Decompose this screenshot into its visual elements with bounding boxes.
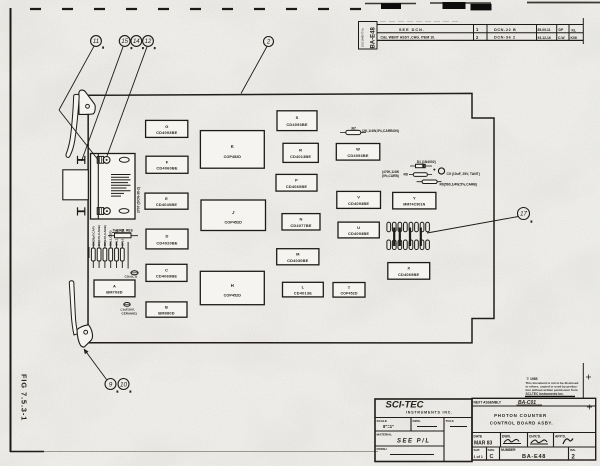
svg-text:SCALE: SCALE — [377, 419, 388, 423]
svg-text:MAR 83: MAR 83 — [474, 441, 493, 447]
svg-text:B: B — [165, 304, 168, 309]
svg-text:10: 10 — [120, 381, 128, 388]
svg-text:E: E — [165, 196, 168, 201]
svg-text:CD4093BE: CD4093BE — [348, 201, 369, 206]
thermal resistor R3 — [108, 229, 138, 238]
balloon 12 — [143, 36, 156, 50]
top ejector lever — [66, 94, 79, 157]
svg-text:X: X — [407, 266, 410, 271]
title block finish cell — [377, 447, 435, 455]
connector J1 note — [137, 187, 141, 213]
IC K — [200, 131, 264, 169]
connector J1 slot upper — [119, 157, 129, 162]
IC L — [283, 282, 324, 297]
svg-text:C&L WENT ASSY ,CHG. ITEM 10.: C&L WENT ASSY ,CHG. ITEM 10. — [381, 36, 436, 40]
svg-text:BA-E48: BA-E48 — [522, 454, 546, 460]
svg-text:CD4060BE: CD4060BE — [156, 166, 177, 171]
resistor network pads row 1 — [387, 222, 430, 232]
svg-text:11: 11 — [93, 39, 99, 45]
title block left outline — [375, 399, 472, 462]
svg-text:(2K,1/4W,5%,CARBON): (2K,1/4W,5%,CARBON) — [362, 129, 399, 133]
svg-text:CD4077BE: CD4077BE — [290, 223, 311, 228]
svg-text:S: S — [296, 115, 299, 120]
drawing title — [490, 413, 553, 426]
balloon 15 — [119, 36, 132, 50]
balloon 17 — [518, 208, 533, 223]
IC M — [277, 249, 319, 265]
board outline — [88, 93, 494, 343]
svg-text:2707 (DCN-36-2): 2707 (DCN-36-2) — [137, 187, 141, 213]
top right tape line 2 — [430, 2, 491, 4]
connector J1 body — [91, 154, 136, 220]
resistor network resistors — [394, 228, 421, 247]
svg-text:INSTRUMENTS INC.: INSTRUMENTS INC. — [406, 411, 453, 415]
leader balloons 9 10 with arrow — [84, 349, 107, 380]
capacitor row labels — [91, 225, 124, 246]
svg-text:CD4013E: CD4013E — [294, 290, 312, 295]
IC T — [333, 283, 365, 298]
svg-text:H: H — [231, 283, 234, 288]
svg-text:BM708D: BM708D — [106, 289, 123, 294]
balloon 14 — [131, 36, 144, 50]
svg-text:U: U — [357, 225, 360, 230]
svg-text:CD4093BE: CD4093BE — [286, 122, 307, 127]
capacitor C4 — [121, 303, 137, 316]
svg-text:DOCUMENT No: DOCUMENT No — [361, 27, 365, 47]
resistor R6 — [417, 180, 477, 186]
svg-text:CD4013BE: CD4013BE — [290, 154, 311, 159]
top tape black blob 3 — [471, 4, 492, 11]
top ejector bracket — [79, 90, 95, 114]
svg-text:DP: DP — [559, 28, 564, 32]
resistor R8 — [382, 170, 432, 178]
connector J1 clamp lower — [78, 207, 85, 215]
svg-text:1 of 1: 1 of 1 — [474, 455, 483, 459]
svg-text:NUMBER: NUMBER — [501, 448, 516, 452]
date cell — [474, 434, 493, 446]
leader balloon 11 — [59, 46, 94, 110]
svg-text:DWN.: DWN. — [502, 434, 511, 438]
IC Y — [393, 192, 436, 209]
IC C — [146, 264, 187, 281]
title block right outline — [472, 398, 596, 460]
svg-text:C: C — [490, 454, 494, 460]
leader balloon 12 — [107, 47, 147, 156]
svg-text:SEE P/L: SEE P/L — [397, 438, 431, 444]
number cell — [501, 448, 546, 460]
leader balloon 15 — [82, 47, 124, 161]
top tape black blob 2 — [443, 2, 466, 9]
svg-text:COP452D: COP452D — [225, 221, 243, 225]
svg-text:CD4060BE: CD4060BE — [286, 184, 307, 189]
IC J — [201, 200, 266, 231]
page bottom border — [10, 451, 378, 453]
capacitor row bodies — [89, 242, 128, 269]
bottom ejector lever — [69, 281, 78, 335]
svg-text:P: P — [295, 178, 298, 183]
revision table document-number box — [359, 22, 378, 50]
svg-text:BM980D: BM980D — [158, 310, 175, 315]
svg-text:12: 12 — [145, 39, 152, 45]
svg-text:2: 2 — [266, 40, 271, 46]
IC F — [146, 156, 188, 173]
svg-text:TOLS: TOLS — [446, 419, 454, 423]
IC N — [282, 214, 320, 230]
resistor network pads row 2 — [387, 240, 430, 250]
svg-text:CD4093BE: CD4093BE — [347, 153, 368, 158]
svg-text:D1 (1N4002): D1 (1N4002) — [417, 160, 436, 164]
IC W — [336, 144, 380, 161]
revision faint heading — [380, 21, 460, 23]
svg-text:R: R — [299, 147, 302, 152]
svg-text:CONTROL BOARD ASBY.: CONTROL BOARD ASBY. — [490, 421, 553, 426]
svg-text:BA-E48: BA-E48 — [371, 26, 377, 48]
top tape black blob 1 — [381, 3, 401, 9]
title block scale cell — [377, 419, 395, 429]
svg-text:ISS.: ISS. — [570, 448, 576, 452]
leader bend to clamp — [59, 110, 99, 161]
title block logo — [386, 400, 453, 415]
registration cross 2 — [587, 405, 592, 410]
balloon 9 — [105, 379, 118, 393]
size cell — [488, 448, 495, 460]
balloon 2 — [264, 37, 274, 47]
leader balloon 2 — [241, 46, 267, 93]
svg-text:K08: K08 — [571, 36, 577, 40]
svg-text:8"=1": 8"=1" — [383, 424, 394, 429]
svg-text:CD4030BE: CD4030BE — [287, 258, 308, 263]
svg-text:SCI-TEC: SCI-TEC — [386, 400, 424, 411]
svg-text:DWG.: DWG. — [413, 419, 422, 423]
next assembly row — [474, 400, 543, 406]
svg-text:FIG 7.5.3-1: FIG 7.5.3-1 — [20, 374, 29, 421]
iss cell — [570, 448, 576, 460]
IC P — [276, 174, 317, 191]
svg-text:NEXT ASSEMBLY: NEXT ASSEMBLY — [474, 401, 502, 405]
title block material cell — [377, 432, 431, 444]
resistor R7 — [340, 126, 399, 134]
fig number — [20, 374, 29, 421]
svg-text:D: D — [166, 234, 169, 239]
diode D1 — [410, 160, 436, 168]
balloon 10 — [118, 379, 131, 393]
connector J1 pins — [111, 175, 131, 197]
IC U — [338, 222, 379, 238]
chkd cell — [529, 434, 548, 444]
IC H — [200, 271, 264, 304]
connector J1 slot lower — [119, 209, 129, 214]
svg-text:DCN-36 2: DCN-36 2 — [494, 36, 516, 40]
svg-text:C3(+)(.1): C3(+)(.1) — [125, 275, 137, 279]
svg-text:MATERIAL: MATERIAL — [377, 432, 393, 436]
svg-text:G: G — [165, 124, 168, 129]
svg-text:SHT.: SHT. — [474, 448, 481, 452]
bottom ejector bracket — [77, 325, 93, 347]
connector J1 left protruding block — [63, 170, 89, 200]
svg-text:KL: KL — [572, 28, 577, 32]
leader balloon 17 — [427, 217, 518, 234]
svg-text:C.W: C.W — [558, 36, 565, 40]
dwn cell — [502, 434, 521, 443]
appd cell — [555, 434, 573, 444]
revision row 1 text — [399, 27, 576, 32]
svg-text:85-09-11: 85-09-11 — [538, 28, 551, 32]
svg-text:93-12-16: 93-12-16 — [538, 36, 551, 40]
svg-text:C: C — [165, 267, 168, 272]
registration cross 1 — [586, 375, 591, 380]
copyright box right edge — [582, 363, 584, 398]
svg-text:THERM. RES: THERM. RES — [113, 229, 134, 233]
svg-text:COP452D: COP452D — [340, 292, 357, 296]
sht cell — [474, 448, 483, 459]
copyright underline — [525, 395, 575, 397]
revision table grid — [377, 18, 583, 44]
capacitor C3 — [125, 271, 139, 279]
top right tape line 1 — [365, 3, 416, 5]
svg-text:SCI-TEC Instruments Inc.: SCI-TEC Instruments Inc. — [526, 392, 564, 396]
IC R — [283, 143, 318, 162]
svg-text:MM74C901N: MM74C901N — [403, 203, 425, 207]
svg-text:SIZE: SIZE — [488, 448, 495, 452]
IC V — [337, 191, 381, 208]
svg-text:CD4040BE: CD4040BE — [156, 202, 177, 207]
title block dwg cell — [413, 419, 438, 427]
svg-text:APP'D.: APP'D. — [555, 434, 566, 438]
top right tape line 3 — [527, 2, 600, 4]
svg-text:PHOTON COUNTER: PHOTON COUNTER — [494, 413, 547, 418]
svg-text:K: K — [231, 144, 234, 149]
svg-text:CD4020BE: CD4020BE — [156, 240, 177, 245]
svg-text:COP452D: COP452D — [224, 155, 242, 159]
svg-text:R6(560,1/4W,5%,CARB): R6(560,1/4W,5%,CARB) — [440, 182, 478, 186]
svg-text:FINISH: FINISH — [377, 447, 388, 451]
svg-text:COP452D: COP452D — [224, 294, 242, 298]
svg-text:CD4069BE: CD4069BE — [156, 274, 177, 279]
svg-text:14: 14 — [133, 39, 140, 45]
svg-text:DATE: DATE — [474, 434, 484, 438]
svg-text:CERAMIC): CERAMIC) — [122, 312, 137, 316]
svg-text:CD4069BE: CD4069BE — [398, 272, 419, 277]
IC D — [146, 229, 188, 249]
IC X — [388, 263, 430, 280]
IC S — [277, 111, 317, 131]
IC B — [146, 302, 187, 317]
svg-text:15: 15 — [121, 39, 128, 45]
copyright block — [526, 377, 579, 396]
svg-text:CH'K'D.: CH'K'D. — [529, 434, 541, 438]
svg-text:N: N — [300, 217, 303, 222]
svg-text:9: 9 — [109, 381, 113, 388]
balloon 11 — [91, 36, 104, 49]
svg-text:R7: R7 — [352, 126, 356, 130]
connector J1 screw upper — [97, 156, 110, 163]
page left border — [10, 8, 12, 452]
svg-text:A: A — [113, 283, 116, 288]
connector J1 clamp upper — [78, 156, 85, 164]
connector J1 screw lower — [97, 208, 110, 215]
svg-text:CD4093BE: CD4093BE — [348, 231, 369, 236]
svg-text:C9 (10uF, 25V, TANT): C9 (10uF, 25V, TANT) — [447, 172, 480, 176]
IC G — [146, 120, 188, 137]
svg-text:V: V — [357, 195, 360, 200]
svg-text:CD4093BE: CD4093BE — [156, 130, 177, 135]
page top dashed border — [30, 8, 362, 10]
revision row 2 text — [381, 35, 577, 40]
svg-text:DCN-22 B: DCN-22 B — [494, 28, 516, 32]
svg-text:Y: Y — [413, 195, 416, 200]
svg-text:SEE DCN.: SEE DCN. — [399, 28, 425, 32]
svg-text:(5%,CARB): (5%,CARB) — [382, 174, 399, 178]
IC A — [94, 280, 135, 297]
svg-text:17: 17 — [520, 212, 527, 218]
title block tols cell — [446, 419, 468, 427]
svg-text:R8: R8 — [404, 172, 408, 176]
IC E — [145, 193, 188, 209]
svg-text:W: W — [356, 147, 360, 152]
capacitor C9 — [433, 168, 480, 176]
